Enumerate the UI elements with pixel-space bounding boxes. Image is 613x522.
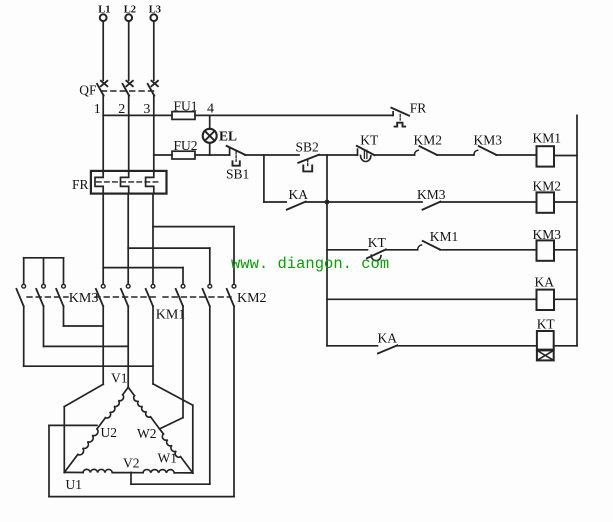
svg-text:KA: KA	[378, 330, 398, 345]
wire phase L2 QF to FR	[128, 95, 130, 172]
relay contact KA rung2	[287, 187, 308, 210]
svg-text:V2: V2	[123, 455, 140, 470]
terminal L3	[149, 4, 161, 80]
node 4	[207, 101, 214, 116]
svg-text:KM3: KM3	[417, 187, 446, 202]
time-delay contact KT	[357, 133, 379, 162]
svg-text:KA: KA	[535, 274, 555, 289]
terminal L2	[124, 4, 136, 80]
wire phase2 branch to KM2c2	[128, 248, 210, 284]
svg-text:QF: QF	[79, 83, 97, 98]
mechanical link dashes	[27, 296, 231, 298]
label W2	[137, 426, 157, 441]
wire KM1c2 to V1 apex	[127, 306, 129, 387]
svg-text:L1: L1	[98, 4, 110, 15]
label V1	[111, 371, 128, 386]
contactor coil KM2	[533, 178, 562, 212]
wire KM2c1 to W1 tap	[161, 306, 183, 428]
wire SB2 to KT contact	[319, 154, 358, 156]
time-delay contact KT rung3	[367, 235, 387, 260]
contact KM2 rung1	[414, 133, 443, 155]
contact KM1 rung3	[418, 229, 459, 250]
pushbutton SB2	[296, 140, 319, 172]
svg-text:KM3: KM3	[474, 133, 503, 148]
wire KM1c1 to U1	[64, 306, 103, 472]
wire SB1 to SB2	[245, 154, 299, 156]
label W1	[158, 451, 178, 466]
relay contact KA rung5	[378, 330, 398, 353]
svg-text:KA: KA	[289, 187, 309, 202]
svg-text:KM2: KM2	[414, 133, 443, 148]
wire KM2c3 to U2	[49, 306, 234, 496]
svg-text:KM1: KM1	[156, 308, 186, 323]
svg-text:FU2: FU2	[174, 138, 198, 153]
node 3	[143, 102, 150, 117]
wire KM1c3 to right vertex	[153, 306, 193, 473]
svg-text:W1: W1	[158, 451, 178, 466]
wire phase L1 QF to FR	[102, 95, 104, 172]
svg-text:L3: L3	[149, 4, 161, 15]
svg-text:KT: KT	[368, 235, 387, 250]
wire KM3 contact to KM1 coil	[496, 154, 536, 156]
svg-text:FU1: FU1	[174, 98, 198, 113]
wire KA branch left	[264, 201, 286, 203]
svg-text:KM2: KM2	[237, 291, 267, 306]
pushbutton SB1	[226, 146, 249, 182]
svg-text:KM3: KM3	[69, 291, 99, 306]
wire KM3c3 drop	[64, 306, 104, 326]
svg-text:U1: U1	[66, 477, 83, 492]
svg-text:SB2: SB2	[296, 140, 319, 155]
wire KT rung3 to KM1 contact	[386, 249, 418, 251]
wire rail to KA contact rung5	[327, 345, 377, 347]
wire KA contact to rail	[306, 201, 327, 203]
wire KM2c2 to V2	[131, 306, 210, 484]
thermal relay FR heaters	[72, 171, 167, 194]
wire phase3 to FU2	[154, 154, 172, 156]
svg-text:FR: FR	[410, 101, 427, 116]
label U1	[66, 477, 83, 492]
wire KM1 contact to KM3 coil	[440, 249, 537, 251]
watermark	[231, 255, 389, 273]
wire EL to FU2 line	[209, 143, 211, 155]
svg-text:V1: V1	[111, 371, 128, 386]
contact KM3 rung2	[417, 187, 446, 209]
wire phase L3 QF to FR	[153, 95, 155, 172]
breaker QF	[79, 81, 158, 98]
wire KA coil to rail	[554, 298, 577, 300]
svg-text:FR: FR	[72, 177, 89, 192]
wire KM1 coil to rail	[554, 155, 577, 157]
svg-text:4: 4	[207, 101, 214, 116]
wire phase1 FR to KM1 contact	[102, 194, 104, 285]
wire phase3 FR to KM1 contact	[152, 194, 154, 285]
wire KA contact to KT coil	[397, 345, 537, 347]
svg-text:KM2: KM2	[533, 178, 562, 193]
node 2	[118, 102, 125, 117]
svg-text:EL: EL	[219, 129, 237, 144]
wire KM3c2 drop	[44, 306, 129, 346]
wire phase3 branch to KM2c3	[153, 227, 234, 285]
svg-text:KT: KT	[360, 133, 379, 148]
wire rail to KT contact rung3	[327, 249, 368, 251]
contactor coil KM1	[533, 131, 562, 167]
svg-text:1: 1	[94, 102, 101, 117]
wire node1 to FU1	[103, 114, 172, 116]
svg-text:KM3: KM3	[533, 227, 562, 242]
wire KM3 rung2 to KM2 coil	[440, 201, 536, 203]
motor winding delta	[64, 387, 193, 473]
node 1	[94, 102, 101, 117]
wire KM2 coil to rail	[554, 201, 577, 203]
timer coil KT	[537, 317, 556, 361]
wire FU2 to SB1	[195, 154, 230, 156]
lamp EL	[203, 129, 237, 144]
svg-text:KT: KT	[537, 317, 556, 332]
right rail	[576, 115, 578, 345]
relay coil KA	[535, 274, 555, 310]
contactor contacts KM3 power	[16, 284, 98, 306]
wire rail to KM3 contact rung2	[327, 201, 422, 203]
wire phase1 branch to KM2c1	[103, 268, 183, 285]
wire rail to KA coil	[327, 298, 537, 300]
wire KT coil to rail	[554, 345, 577, 347]
svg-text:L2: L2	[124, 4, 136, 15]
svg-text:SB1: SB1	[226, 167, 249, 182]
thermal contact FR	[391, 101, 426, 127]
label V2	[123, 455, 140, 470]
svg-text:W2: W2	[137, 426, 157, 441]
contactor contacts KM1 power	[96, 284, 185, 322]
fuse FU2	[172, 138, 198, 159]
svg-text:U2: U2	[101, 425, 118, 440]
wire node4 drop to EL	[209, 115, 211, 129]
wire KT to KM2 contact	[375, 154, 415, 156]
svg-text:www. diangon. com: www. diangon. com	[231, 255, 389, 273]
wire FU1 to FR contact	[195, 114, 393, 116]
wire KM3 star bar	[24, 258, 64, 285]
svg-text:KM1: KM1	[533, 131, 562, 146]
contactor coil KM3	[533, 227, 562, 261]
fuse FU1	[172, 98, 198, 119]
contactor contacts KM2 power	[176, 284, 267, 306]
label U2	[101, 425, 118, 440]
wire KA branch down	[263, 155, 265, 202]
wire phase2 FR to KM1 contact	[127, 194, 129, 285]
wire KM3c1 drop	[24, 306, 153, 366]
terminal L1	[98, 4, 110, 80]
wire KM3 coil to rail	[554, 249, 577, 251]
svg-text:KM1: KM1	[430, 229, 459, 244]
contact KM3 rung1	[474, 133, 503, 155]
wire KM2 to KM3 contact	[437, 154, 474, 156]
junction dot	[325, 200, 330, 205]
left rail	[326, 155, 328, 346]
